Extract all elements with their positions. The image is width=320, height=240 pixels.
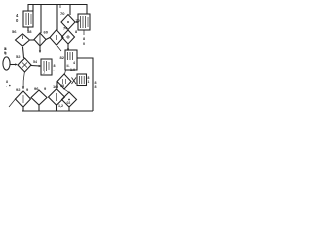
wire small diamond to Rm arrow xyxy=(31,65,40,68)
wire B3 bottom xyxy=(56,105,58,111)
wire Db bottom xyxy=(68,107,70,111)
svg-text:.!: .! xyxy=(43,71,45,75)
diamond 72 xyxy=(61,15,75,30)
svg-text:74: 74 xyxy=(63,26,68,31)
wire tick x60 xyxy=(59,5,61,9)
wire R3 to right border xyxy=(77,58,93,111)
label 54 xyxy=(54,64,56,72)
page text marks left upper xyxy=(5,47,7,56)
diamond 92 xyxy=(16,91,31,107)
wire d3 tail xyxy=(57,46,61,51)
junction X xyxy=(72,78,77,85)
svg-text:02: 02 xyxy=(67,101,71,105)
label 40 xyxy=(16,13,19,23)
page text marks right of border xyxy=(95,81,97,89)
wire drop to diamond 66 xyxy=(56,5,58,31)
svg-text:8: 8 xyxy=(75,30,77,34)
diamond 106 xyxy=(57,74,71,89)
wire d5 to R3 arrow xyxy=(67,44,69,50)
svg-text:60: 60 xyxy=(44,30,49,35)
svg-text:16: 16 xyxy=(53,84,58,89)
wire drop to diamond 56 row xyxy=(40,5,42,34)
wire small diamond down to B1 xyxy=(23,72,24,80)
svg-text:.: . xyxy=(6,84,7,88)
svg-text:1.il: 1.il xyxy=(70,68,75,72)
wire top rail xyxy=(28,5,87,15)
wire d2-d3 xyxy=(46,38,50,40)
wire d1 to small diamond xyxy=(23,47,24,58)
block 108 register xyxy=(77,74,87,86)
wire d1-d2 xyxy=(30,39,34,41)
svg-text:8: 8 xyxy=(95,85,97,89)
wire rect to diamond d1 xyxy=(27,27,29,31)
diamond 56 xyxy=(16,34,30,46)
terminal oval 50 xyxy=(3,57,10,70)
wire stub x33 xyxy=(32,5,34,12)
svg-text:52: 52 xyxy=(16,54,21,59)
svg-text:8: 8 xyxy=(5,47,7,51)
svg-text:1: 1 xyxy=(88,80,90,84)
diamond 112 xyxy=(62,92,77,107)
diamond 60 xyxy=(34,33,46,46)
svg-text:56: 56 xyxy=(12,29,17,34)
diamond 102 xyxy=(49,89,65,105)
wire oval to diamond arrow xyxy=(10,64,16,66)
block 54 register xyxy=(41,59,52,75)
block 40 register xyxy=(23,11,33,27)
label 50 xyxy=(4,47,6,55)
wire d2 down arrow xyxy=(39,46,41,52)
svg-text:8: 8 xyxy=(83,37,85,41)
svg-text:58: 58 xyxy=(27,29,32,34)
svg-text:92: 92 xyxy=(16,87,21,92)
diamond 96 xyxy=(31,90,47,105)
label 80 xyxy=(75,30,85,46)
page text marks left lower xyxy=(6,80,8,88)
wire Da to Db xyxy=(64,89,69,92)
wire d4 to rect R2 arrow xyxy=(75,21,78,23)
wire B1 bottom xyxy=(22,107,24,111)
svg-text:1,2: 1,2 xyxy=(58,104,63,108)
svg-text:4: 4 xyxy=(73,61,75,65)
label 104 xyxy=(70,68,75,72)
wire into B3 top arrow xyxy=(56,82,58,88)
svg-text:8: 8 xyxy=(5,52,7,56)
wire B2 bottom xyxy=(38,105,40,111)
svg-text:70: 70 xyxy=(60,11,65,16)
block 84 register xyxy=(65,50,77,70)
svg-text:96: 96 xyxy=(34,86,39,91)
wire R3 to Da xyxy=(65,70,66,74)
diamond 76 xyxy=(62,30,75,44)
wire B1 branch diagonal xyxy=(9,99,16,107)
label 110 xyxy=(88,76,90,84)
wire below R2 xyxy=(83,30,85,35)
wire bottom rail xyxy=(22,110,93,112)
svg-text:.: . xyxy=(54,68,55,72)
diamond 66 xyxy=(50,30,63,45)
block 78 register xyxy=(78,14,90,30)
svg-text:54: 54 xyxy=(33,60,37,64)
diamond 52 xyxy=(18,58,31,72)
wire drop to diamond 72 xyxy=(69,5,71,16)
svg-text:0: 0 xyxy=(83,42,85,46)
svg-text:82: 82 xyxy=(60,55,65,60)
